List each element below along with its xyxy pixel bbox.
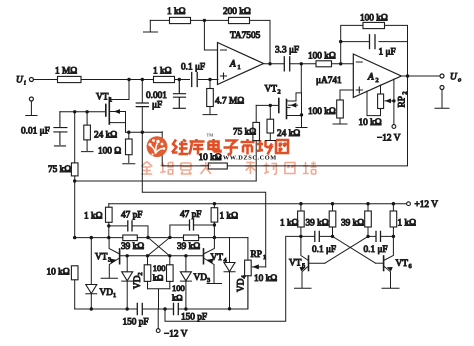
node VD3 bottom [184,307,187,310]
capacitor 3.3uF [275,46,299,71]
transistor VT3 [95,238,120,279]
resistor R 1k VT5 collector [280,204,304,237]
resistor R 100ohm with ground [98,132,135,164]
output ground terminal [435,86,449,109]
capacitor 150pF left [123,303,149,327]
resistor R 100k feedback A2 [360,14,388,29]
svg-text:10 kΩ: 10 kΩ [254,274,277,284]
node rail top 214 [213,202,216,205]
capacitor 0.001uF to ground [146,80,186,111]
node VT4 collector [213,236,216,239]
svg-text:RP: RP [251,250,262,260]
resistor R 1k input [153,67,175,83]
node 340.7 [339,62,342,65]
svg-text:A: A [367,73,374,83]
resistor R 24k left with ground [82,112,118,152]
potentiometer RP1 10k [245,238,278,309]
node 128.8 [127,131,130,134]
svg-text:100 kΩ: 100 kΩ [308,52,336,62]
svg-text:75 kΩ: 75 kΩ [48,165,71,175]
svg-text:1 MΩ: 1 MΩ [55,67,77,77]
svg-text:0.1 μF: 0.1 μF [181,63,205,73]
op-amp A1 [218,31,264,85]
resistor R 1k (A1 minus to gnd) [167,7,191,24]
node at 142 [141,78,144,81]
svg-text:24 kΩ: 24 kΩ [94,131,117,141]
svg-text:U: U [16,76,24,86]
svg-text:kΩ: kΩ [153,273,164,283]
wire bottom rail [75,276,248,309]
wire A2 output [401,75,440,77]
node gate 74.7 [73,110,76,113]
resistor R 39k VT5 side [306,204,336,237]
capacitor 47pF left [109,211,148,238]
wire VT1 source junction [126,131,163,133]
svg-text:VT: VT [265,85,278,95]
wire rail2 collectors [75,237,248,239]
svg-text:100 Ω: 100 Ω [98,147,121,157]
watermark hanzi zi [224,141,239,155]
node X left [146,236,149,239]
svg-text:1 kΩ: 1 kΩ [167,7,186,17]
svg-text:39 kΩ: 39 kΩ [177,242,200,252]
svg-text:100 kΩ: 100 kΩ [360,14,388,24]
node VD2 bottom [126,307,129,310]
wire base line left ff [120,255,204,257]
wire 100k bottoms join [148,289,170,309]
resistor R 24k (VT2 gate) with ground [266,105,301,140]
node rail 301 [299,202,302,205]
input ground terminal [26,97,37,116]
wire cross diagonal to VT6 base [333,236,376,263]
svg-text:2: 2 [137,272,144,275]
wire line A 75k bottoms [75,180,257,182]
node at 210 [208,78,211,81]
capacitor 150pF right [174,303,208,322]
resistor R 1k VT6 collector [390,204,416,237]
svg-text:0.1 μF: 0.1 μF [364,245,388,255]
capacitor 0.1uF left [301,231,336,255]
svg-text:100: 100 [172,283,185,293]
node 75-181 [73,179,76,182]
op-amp A2 [316,54,401,98]
wire A1 inverting input riser [204,20,217,50]
svg-text:75 kΩ: 75 kΩ [233,128,256,138]
capacitor 0.01uF with ground [21,112,67,146]
node gate 87.1 [85,110,88,113]
node 100k left top [146,254,149,257]
wire VT2 drain from node 301 [300,64,302,93]
node VD3 top [184,254,187,257]
diode VD2 [122,256,144,309]
capacitor series C (VT1 branch) [136,80,148,132]
svg-text:−12 V: −12 V [377,134,401,144]
capacitor 0.1uF [181,63,205,87]
resistor R 39k right [177,235,200,252]
node VD4 bottom [228,307,231,310]
transistor VT6 [376,236,412,288]
svg-text:μA741: μA741 [316,76,342,86]
svg-text:μF: μF [152,101,162,111]
svg-text:0.001: 0.001 [146,91,167,101]
svg-text:1 kΩ: 1 kΩ [153,67,172,77]
svg-text:WWW.DZSC.COM: WWW.DZSC.COM [216,155,277,162]
resistor R 10k (A2 out to VT1 source) [199,153,228,169]
node VT5 collector [299,235,302,238]
node VD1 bottom [90,307,93,310]
ground top-left of A1 bias [144,20,158,32]
terminal -12V bottom [156,309,187,340]
wire cross diagonal to VT5 base [325,236,368,263]
node A2 out [406,74,409,77]
node at 204 top [203,19,206,22]
svg-text:VT: VT [396,259,409,269]
node 100k right top [168,254,171,257]
terminal Ui [16,76,33,87]
node cap-39k left [331,235,334,238]
wire top bias line [150,20,270,63]
svg-text:0.1 μF: 0.1 μF [312,245,336,255]
node VD2 top [126,254,129,257]
svg-text:10 kΩ: 10 kΩ [47,268,70,278]
node stub [163,307,166,310]
svg-text:10 kΩ: 10 kΩ [359,118,382,128]
diode VD4 [224,238,248,309]
node A1 out [268,62,271,65]
wire A2 feedback left riser [341,25,408,76]
wire stub to VT5 collector [165,236,301,321]
svg-text:1 kΩ: 1 kΩ [220,212,239,222]
svg-text:47 pF: 47 pF [180,210,201,220]
resistor R 100k mid-right [167,256,185,303]
svg-text:VD: VD [100,288,114,298]
wire A1 output [264,63,317,65]
resistor R 10k left chain [47,266,79,280]
wire cross diagonal left-down [148,238,170,256]
VT2 source ground [296,93,307,128]
node 301 [300,62,303,65]
node 214-225 [213,223,216,226]
svg-text:47 pF: 47 pF [121,211,142,221]
node rail 332 [331,202,334,205]
svg-text:1 μF: 1 μF [379,48,396,58]
svg-text:A: A [229,60,236,70]
node rail 393 [392,202,395,205]
node VT3 collector [107,236,110,239]
watermark hanzi chang [257,140,272,155]
svg-text:RP: RP [398,96,408,107]
svg-text:2: 2 [376,77,379,84]
transistor VT4 [204,238,227,284]
svg-text:VD: VD [133,275,143,289]
svg-text:U: U [450,73,458,83]
resistor R 4.7M with ground [203,80,244,115]
watermark hanzi dian [209,139,221,152]
node cap-39k right [366,235,369,238]
watermark badge [147,136,168,157]
svg-text:24 kΩ: 24 kΩ [277,129,300,139]
capacitor 0.1uF right [364,231,394,255]
svg-text:2: 2 [278,89,281,96]
svg-text:100 kΩ: 100 kΩ [308,107,336,117]
watermark hanzi wang [276,140,288,153]
wire +12V rail [109,203,407,205]
svg-text:1: 1 [113,292,116,299]
transistor VT2 [256,85,301,119]
resistor R 1k right (VT4 collector) [211,204,238,238]
node 108.8-225.9 [107,224,110,227]
svg-text:VT: VT [96,93,109,103]
node VD1 top [90,236,93,239]
wire A2 output feedback down-left to 10k [162,76,407,166]
svg-text:3: 3 [207,277,210,284]
diode VD1 [86,238,116,309]
node feedback mid [339,40,342,43]
capacitor 47pF right [170,210,215,237]
resistor R 1k left (VT3 collector) [84,204,112,238]
svg-text:100: 100 [153,263,166,273]
wire line B to RP1 wiper [142,132,265,267]
svg-text:6: 6 [409,263,412,270]
node at 129 [127,78,130,81]
watermark hanzi wei [172,140,188,155]
watermark hanzi ku [189,139,205,155]
capacitor C 1uF feedback A2 [370,35,396,58]
node 142.3 [141,131,144,134]
svg-text:TA7505: TA7505 [230,31,261,41]
wire VT1 gate line [60,111,106,113]
transistor VT1 [96,93,129,133]
svg-text:i: i [24,80,26,87]
svg-text:1: 1 [263,254,266,261]
svg-text:1 kΩ: 1 kΩ [84,212,103,222]
svg-text:39 kΩ: 39 kΩ [306,219,329,229]
svg-text:VD: VD [237,278,247,292]
resistor R 1M [55,67,81,83]
svg-text:4.7 MΩ: 4.7 MΩ [215,97,244,107]
svg-text:VT: VT [289,259,302,269]
resistor R 39k VT6 side [341,204,371,237]
svg-text:VD: VD [194,273,208,283]
svg-text:0.01 μF: 0.01 μF [21,127,50,137]
wire A2 plus input with R 100k to ground [308,90,353,124]
wire input line [34,79,218,81]
resistor R 100k (A2 input) [308,52,336,67]
svg-text:+12 V: +12 V [415,200,439,210]
svg-text:3.3 μF: 3.3 μF [275,46,299,56]
resistor R 100k mid-left [144,256,165,289]
svg-text:39 kΩ: 39 kΩ [341,219,364,229]
svg-text:39 kΩ: 39 kΩ [121,242,144,252]
node VT6 collector [392,235,395,238]
resistor R 75k left [48,112,78,238]
svg-text:kΩ: kΩ [172,293,183,303]
resistor R 39k left [121,235,144,252]
watermark row2 faint chars [141,162,316,175]
potentiometer RP2 10k [359,79,409,144]
svg-text:TM: TM [207,133,214,138]
svg-text:−12 V: −12 V [164,330,188,340]
node VT2 source [300,113,303,116]
wire VT1 drain riser [128,80,130,100]
node rail 368 [366,202,369,205]
svg-text:o: o [458,77,461,84]
svg-text:1 kΩ: 1 kΩ [398,219,417,229]
terminal Uo [440,73,461,84]
node at 179 [178,78,181,81]
watermark hanzi shi [241,139,255,155]
wire cross diagonal right-down [148,237,170,255]
resistor R 200k feedback A1 [223,7,251,24]
node X right [168,236,171,239]
terminal +12V [407,200,439,210]
resistor R 75k right [233,105,260,181]
svg-text:150 pF: 150 pF [123,318,149,328]
node rail2 left [73,236,76,239]
wire to A2 minus [332,63,354,65]
svg-text:1: 1 [238,64,241,71]
transistor VT5 [289,236,325,288]
svg-text:VT: VT [95,253,108,263]
diode VD3 [180,256,210,309]
svg-text:200 kΩ: 200 kΩ [223,7,251,17]
svg-text:1 kΩ: 1 kΩ [280,219,299,229]
node VT2 gate [269,104,272,107]
wire left chain bottom [74,280,76,309]
